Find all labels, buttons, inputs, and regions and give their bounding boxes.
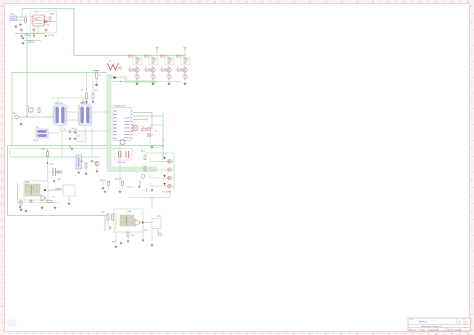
svg-text:checked: checked (455, 329, 462, 331)
svg-text:IN-DET: IN-DET (100, 180, 107, 182)
svg-text:L: L (172, 77, 173, 79)
svg-text:J: J (2, 132, 3, 134)
svg-text:R22: R22 (101, 212, 104, 214)
svg-text:4094: 4094 (84, 103, 88, 105)
svg-text:LM386: LM386 (55, 189, 61, 191)
svg-text:REV 1.0: REV 1.0 (409, 329, 416, 331)
svg-text:R16: R16 (81, 161, 84, 163)
svg-text:C4: C4 (99, 75, 101, 77)
svg-text:L: L (188, 77, 189, 79)
svg-text:L: L (140, 77, 141, 79)
svg-text:D1: D1 (47, 25, 49, 27)
svg-text:W: W (471, 306, 473, 308)
svg-text:XTAL 12M: XTAL 12M (117, 161, 126, 164)
svg-text:4011B: 4011B (33, 140, 39, 142)
svg-text:VCC: VCC (50, 14, 55, 16)
svg-text:J: J (471, 132, 472, 134)
svg-text:C5: C5 (155, 131, 157, 133)
svg-text:1/1: 1/1 (466, 322, 468, 324)
svg-text:2021-05-18: 2021-05-18 (429, 329, 438, 331)
svg-text:Schematic_Project_v1: Schematic_Project_v1 (422, 325, 443, 328)
svg-text:Sheet_1: Sheet_1 (419, 321, 428, 324)
svg-text:U2 AT89C2051: U2 AT89C2051 (113, 105, 126, 108)
svg-text:R14: R14 (42, 149, 45, 151)
svg-text:RP1: RP1 (141, 151, 145, 153)
svg-text:R2: R2 (142, 127, 144, 129)
svg-text:PWR-5V0: PWR-5V0 (27, 42, 35, 44)
svg-text:MIC1: MIC1 (50, 164, 54, 166)
svg-text:U7A: U7A (127, 210, 132, 213)
svg-text:Y1: Y1 (64, 129, 66, 131)
svg-text:R25: R25 (112, 242, 115, 244)
svg-text:SOUNDER: SOUNDER (162, 192, 172, 194)
svg-text:C9: C9 (52, 197, 54, 199)
svg-text:L: L (156, 77, 157, 79)
svg-text:C12: C12 (144, 230, 147, 232)
svg-text:7805: 7805 (34, 19, 38, 21)
svg-text:C2 104: C2 104 (48, 35, 54, 37)
svg-text:U5A: U5A (25, 181, 30, 184)
svg-text:LS-OUT: LS-OUT (127, 187, 134, 189)
svg-text:4094: 4094 (59, 103, 63, 105)
svg-text:TITLE: TITLE (409, 319, 413, 321)
svg-text:AU OUT: AU OUT (115, 178, 123, 181)
svg-text:R8: R8 (95, 90, 97, 92)
svg-text:R7: R7 (81, 90, 83, 92)
svg-text:X1: X1 (27, 106, 29, 108)
svg-text:R24: R24 (131, 235, 134, 237)
svg-text:W: W (1, 306, 3, 308)
